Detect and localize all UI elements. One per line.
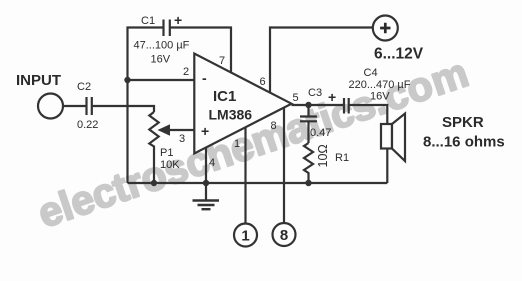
- svg-text:7: 7: [219, 55, 225, 67]
- wire input to C2: [63, 105, 87, 107]
- svg-text:16V: 16V: [151, 54, 171, 66]
- wire C1 left branch down to ground bus: [128, 28, 164, 184]
- pin 4 wire: [205, 148, 207, 183]
- node P1 bus junction: [151, 180, 157, 186]
- terminal circle 8: [273, 223, 296, 246]
- svg-text:16V: 16V: [370, 91, 390, 103]
- svg-text:+: +: [328, 89, 336, 105]
- resistor R1: [304, 143, 313, 183]
- wire pin 2: [128, 79, 195, 81]
- power terminal: [373, 16, 398, 41]
- svg-text:1: 1: [234, 138, 240, 150]
- svg-text:10K: 10K: [160, 159, 180, 171]
- INPUT terminal circle: [38, 94, 63, 119]
- svg-text:+: +: [174, 12, 182, 28]
- node R1 bus junction: [305, 180, 311, 186]
- op-amp IC1 triangle: [194, 54, 291, 154]
- svg-text:3: 3: [179, 133, 185, 145]
- wire C2 to P1 top: [92, 106, 154, 112]
- svg-text:C1: C1: [141, 15, 155, 27]
- potentiometer P1: [149, 112, 158, 183]
- svg-text:220...470 µF: 220...470 µF: [349, 79, 411, 91]
- speaker SPKR: [381, 124, 392, 149]
- wire pin 6 to power: [270, 28, 373, 93]
- pin 1 wire: [244, 128, 246, 224]
- ground bus wire: [128, 182, 388, 184]
- ground: [205, 183, 207, 200]
- node pin2/C1 junction: [124, 77, 130, 83]
- svg-text:8...16 ohms: 8...16 ohms: [423, 134, 505, 151]
- svg-text:8: 8: [271, 120, 277, 132]
- svg-text:-: -: [202, 70, 207, 86]
- svg-text:SPKR: SPKR: [442, 114, 484, 131]
- svg-text:5: 5: [293, 92, 299, 104]
- svg-text:0.22: 0.22: [77, 119, 98, 131]
- capacitor C4: [343, 98, 345, 114]
- svg-text:+: +: [201, 123, 209, 139]
- svg-text:47...100 µF: 47...100 µF: [134, 39, 190, 51]
- capacitor C3: [300, 115, 317, 117]
- wire output pin5 to C4: [292, 104, 345, 106]
- svg-text:P1: P1: [160, 147, 173, 159]
- wire C3 to R1: [307, 121, 309, 143]
- capacitor C2: [85, 97, 87, 115]
- svg-text:C4: C4: [364, 67, 378, 79]
- svg-text:LM386: LM386: [209, 107, 253, 123]
- pin 8 wire: [283, 108, 285, 223]
- capacitor C1: [162, 20, 164, 37]
- svg-text:IC1: IC1: [213, 88, 236, 105]
- svg-text:2: 2: [183, 66, 189, 78]
- svg-text:0.47: 0.47: [310, 127, 331, 139]
- P1 wiper arrow: [158, 124, 171, 135]
- wire junction to C3: [307, 105, 309, 117]
- wire speaker to bus: [386, 149, 388, 184]
- svg-text:4: 4: [209, 157, 215, 169]
- wire C1 right to pin 7: [170, 28, 231, 73]
- svg-text:C3: C3: [308, 87, 322, 99]
- node output junction: [305, 102, 311, 108]
- svg-text:6...12V: 6...12V: [374, 46, 424, 63]
- svg-text:R1: R1: [335, 152, 349, 164]
- svg-text:INPUT: INPUT: [16, 72, 61, 89]
- svg-text:C2: C2: [77, 81, 91, 93]
- svg-text:6: 6: [260, 76, 266, 88]
- wire C4 to speaker: [349, 105, 388, 124]
- svg-text:8: 8: [280, 227, 288, 244]
- terminal circle 1: [234, 224, 257, 247]
- svg-text:10Ω: 10Ω: [316, 144, 330, 167]
- svg-text:1: 1: [241, 228, 249, 245]
- node pin4 junction: [203, 180, 209, 186]
